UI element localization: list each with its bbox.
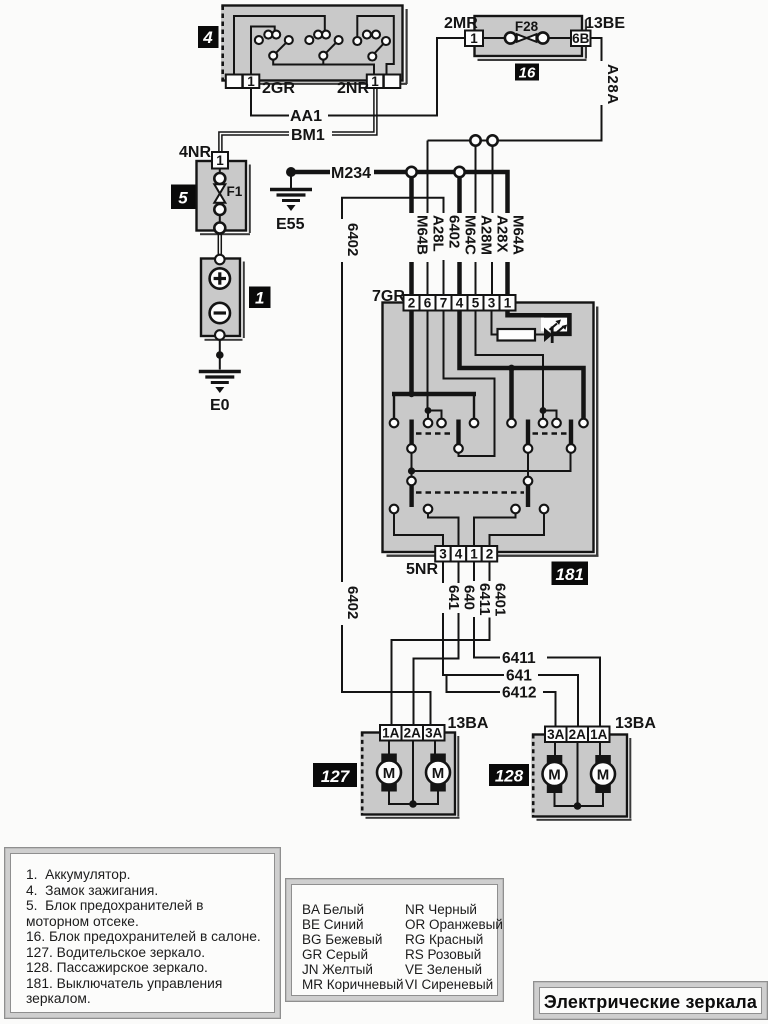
wire battery to ground E0: [216, 340, 224, 370]
connector 2MR pin 1: [444, 15, 483, 46]
mirror switch 181 body: [383, 303, 599, 557]
svg-text:127: 127: [321, 767, 351, 786]
svg-text:2NR: 2NR: [337, 80, 369, 97]
internal rail wire: [408, 453, 571, 478]
title box: [533, 981, 768, 1020]
svg-text:6402: 6402: [446, 215, 463, 248]
svg-text:1A: 1A: [382, 726, 400, 741]
wire 6402 riser from pin 7: [342, 198, 463, 295]
svg-text:2: 2: [408, 296, 416, 311]
wire M234: [293, 165, 508, 213]
svg-text:641: 641: [506, 668, 532, 685]
svg-text:4: 4: [455, 547, 463, 562]
wire to 5NR pin 3: [394, 513, 443, 546]
connector 13BE pin 6B: [571, 15, 625, 46]
wire 640: [414, 562, 478, 726]
dashed link upper-left: [416, 432, 454, 434]
svg-text:M: M: [383, 765, 396, 782]
svg-text:3A: 3A: [547, 727, 565, 742]
svg-text:A28L: A28L: [430, 215, 447, 252]
fuse box 5 body: [197, 161, 251, 235]
splice junction M234 to M64B: [406, 167, 416, 177]
common wire of 127: [389, 741, 438, 808]
svg-text:M: M: [597, 767, 610, 784]
ignition switch internal wiring: [234, 16, 394, 75]
svg-text:1: 1: [247, 74, 255, 89]
svg-text:7GR: 7GR: [372, 288, 405, 305]
switch pole bar L1: [409, 485, 413, 508]
switch pole bar L2: [526, 485, 530, 508]
pin 5 internal wire: [476, 311, 557, 420]
resistor R: [498, 329, 536, 341]
wire to 5NR pin 1: [474, 513, 516, 546]
wire BM1 (double): [219, 88, 377, 152]
LED indicator: [535, 315, 569, 343]
switch pole bar UR1: [526, 420, 530, 446]
ignition switch contact set S2: [305, 31, 342, 60]
svg-text:6401: 6401: [492, 583, 509, 616]
svg-text:5: 5: [178, 189, 188, 208]
svg-text:13BA: 13BA: [448, 715, 489, 732]
pin 3 internal wire: [492, 311, 498, 335]
svg-text:641: 641: [445, 585, 462, 610]
svg-text:1: 1: [371, 74, 379, 89]
svg-text:1: 1: [504, 296, 512, 311]
tag 181: [552, 562, 589, 586]
svg-text:M: M: [432, 765, 445, 782]
wire to 5NR pin 4: [428, 513, 459, 546]
svg-text:M64A: M64A: [510, 215, 527, 255]
wire 6411: [474, 562, 600, 727]
svg-text:13BE: 13BE: [585, 15, 625, 32]
connector 7GR: [372, 288, 516, 311]
ignition switch contact set S3: [353, 31, 390, 61]
svg-text:5: 5: [472, 296, 480, 311]
battery plus terminal: [210, 268, 230, 288]
connector 5NR: [406, 546, 497, 578]
svg-text:1: 1: [255, 289, 264, 308]
ground E55: [270, 167, 312, 233]
svg-text:F1: F1: [227, 184, 243, 199]
svg-text:13BA: 13BA: [615, 715, 656, 732]
battery minus terminal: [210, 303, 230, 323]
tag 4: [198, 26, 219, 48]
wire M64B: [412, 178, 431, 296]
svg-text:1: 1: [470, 31, 478, 46]
svg-text:A28X: A28X: [494, 215, 511, 253]
wire A28L: [428, 141, 447, 296]
svg-text:7: 7: [440, 296, 448, 311]
fuse F28: [483, 19, 571, 44]
svg-text:AA1: AA1: [290, 108, 322, 125]
wire M64A: [508, 215, 527, 295]
svg-text:E55: E55: [276, 216, 305, 233]
motor M2 of 127: [426, 741, 450, 792]
lower pole top contacts: [407, 477, 532, 486]
splice junction M234 to M64C: [454, 167, 464, 177]
fuse box 16 body: [475, 16, 588, 61]
pin 6 internal wire: [425, 311, 442, 420]
svg-text:4: 4: [202, 28, 213, 47]
svg-text:A28M: A28M: [478, 215, 495, 255]
tag 127: [313, 763, 357, 787]
svg-text:6402: 6402: [344, 223, 361, 256]
svg-text:6411: 6411: [502, 650, 536, 667]
svg-text:2: 2: [486, 547, 494, 562]
connector 13BA of 128: [545, 715, 656, 742]
tag 128: [489, 764, 529, 786]
tag 5: [171, 185, 196, 210]
svg-text:3: 3: [439, 547, 447, 562]
driver mirror 127 body: [361, 733, 460, 819]
wire M64C: [460, 178, 479, 296]
svg-text:128: 128: [495, 767, 524, 786]
switch pole bar UL1: [409, 420, 413, 446]
svg-text:1A: 1A: [590, 727, 608, 742]
svg-text:E0: E0: [210, 397, 230, 414]
svg-text:5NR: 5NR: [406, 561, 438, 578]
battery 1 body: [201, 255, 245, 341]
common wire of 128: [555, 742, 604, 810]
ground E0: [199, 372, 241, 415]
ignition switch 4 body: [221, 6, 408, 85]
motor M1 of 127: [377, 741, 401, 792]
svg-text:16: 16: [519, 65, 536, 82]
svg-text:BM1: BM1: [291, 127, 325, 144]
connector 2NR pin 1: [337, 74, 400, 97]
splice junction on A28A to A28X: [487, 135, 497, 145]
svg-text:M64C: M64C: [462, 215, 479, 255]
connector 2GR pin 1: [226, 74, 296, 97]
svg-text:M: M: [548, 767, 561, 784]
svg-text:4: 4: [456, 296, 464, 311]
svg-text:6: 6: [424, 296, 432, 311]
svg-text:A28A: A28A: [604, 64, 621, 105]
svg-text:6411: 6411: [476, 583, 493, 616]
svg-text:6B: 6B: [572, 31, 590, 46]
motor M1 of 128: [543, 742, 567, 793]
connector 4NR pin 1: [179, 144, 228, 169]
wire 641: [443, 562, 578, 727]
svg-text:2GR: 2GR: [262, 80, 295, 97]
switch pole bar UL2: [456, 420, 460, 446]
stationary contacts row (upper group): [390, 419, 588, 428]
wire 6401: [392, 562, 509, 726]
switch pole bar UR2: [569, 420, 573, 446]
motor M2 of 128: [591, 742, 615, 793]
svg-text:640: 640: [461, 585, 478, 610]
svg-text:2MR: 2MR: [444, 15, 478, 32]
ignition switch contact set S1: [255, 31, 293, 60]
pin 1 internal wire: [508, 311, 568, 316]
pin 4 internal wire: [460, 311, 584, 420]
wire fuse5 to battery (double): [218, 234, 221, 256]
fuse F1: [214, 169, 242, 234]
svg-text:2A: 2A: [404, 726, 422, 741]
wire 6402 left run: [342, 223, 431, 725]
pin 7 internal wire: [444, 311, 495, 457]
pole output contacts upper: [407, 444, 575, 453]
svg-text:3: 3: [488, 296, 496, 311]
legend box: wire colour codes: [285, 878, 504, 1002]
wire to 5NR pin 2: [490, 513, 545, 546]
svg-text:M64B: M64B: [414, 215, 431, 255]
connector 13BA of 127: [380, 715, 489, 741]
tag 16: [515, 64, 539, 82]
lower stationary contacts: [390, 505, 549, 514]
wire A28A: [428, 38, 622, 141]
wire AA1: [251, 38, 465, 125]
splice junction on A28A to A28M: [470, 135, 480, 145]
dashed link lower: [416, 491, 524, 493]
svg-text:6412: 6412: [502, 685, 536, 702]
passenger mirror 128 body: [532, 735, 632, 821]
svg-text:6402: 6402: [344, 586, 361, 619]
svg-text:1: 1: [470, 547, 478, 562]
svg-text:F28: F28: [515, 19, 539, 34]
svg-text:1: 1: [216, 153, 224, 168]
pin 2 internal wire: [409, 311, 414, 395]
dashed link upper-right: [533, 432, 567, 434]
wire 6412 branch: [447, 675, 556, 727]
svg-text:181: 181: [556, 565, 584, 584]
contact bracket rail: [392, 391, 476, 421]
wire A28M: [476, 146, 495, 295]
svg-text:M234: M234: [331, 165, 371, 182]
legend box: component list: [4, 847, 281, 1019]
svg-text:3A: 3A: [425, 726, 443, 741]
svg-text:2A: 2A: [569, 727, 587, 742]
wire A28X: [492, 146, 511, 295]
svg-text:4NR: 4NR: [179, 144, 211, 161]
tag 1: [249, 287, 271, 309]
